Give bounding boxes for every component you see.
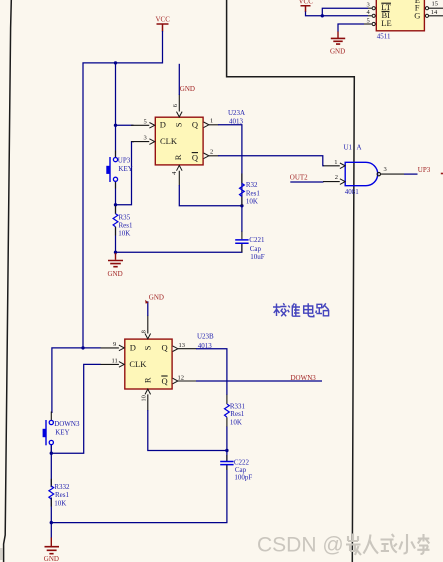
watermark fragment left edge <box>0 548 3 560</box>
svg-text:S: S <box>142 345 152 350</box>
pin 12 Qbar output <box>173 375 197 384</box>
pin 3 CLK input <box>131 135 154 145</box>
svg-text:KEY: KEY <box>55 429 69 437</box>
node junction R332/GND/rail <box>50 521 53 524</box>
wire D net (from long vertical and key) <box>52 348 101 413</box>
node junction left vertical / D wire <box>81 346 84 349</box>
svg-text:OUT2: OUT2 <box>290 173 308 181</box>
svg-text:3: 3 <box>367 2 370 9</box>
pin 10 reset (bottom) <box>140 389 150 410</box>
node junction R35/GND/rail <box>114 251 117 254</box>
svg-text:CSDN @: CSDN @ <box>257 534 344 557</box>
svg-text:4: 4 <box>367 9 371 16</box>
ground GND (bottom) <box>44 523 59 562</box>
svg-text:2: 2 <box>335 174 338 181</box>
IC U23A 4013 flip-flop body <box>155 109 245 165</box>
IC U23B 4013 flip-flop body <box>125 333 214 389</box>
svg-text:Res1: Res1 <box>230 410 245 418</box>
svg-text:3: 3 <box>144 135 147 142</box>
svg-text:GND: GND <box>180 85 195 93</box>
gate pin 1 <box>324 159 346 169</box>
pin 5 D input <box>131 118 155 128</box>
svg-text:VCC: VCC <box>156 16 171 24</box>
IC 4511 (partially cut at top) <box>376 0 424 41</box>
resistor R332 <box>49 479 70 508</box>
svg-text:Q: Q <box>162 343 168 353</box>
svg-text:10K: 10K <box>118 229 130 237</box>
svg-text:10: 10 <box>140 395 147 402</box>
watermark CSDN <box>257 534 430 557</box>
pushbutton DOWN3 KEY <box>43 412 80 454</box>
pushbutton UP3 KEY <box>106 151 132 189</box>
svg-text:UP3: UP3 <box>118 156 131 164</box>
black partition line top/right <box>227 0 355 562</box>
power GND label above pin 8 <box>145 293 164 316</box>
svg-text:DOWN3: DOWN3 <box>54 420 80 428</box>
svg-text:1: 1 <box>210 117 213 124</box>
svg-text:S: S <box>174 122 184 127</box>
4511 pin 3 LT <box>367 2 376 10</box>
wire VCC net <box>83 31 163 348</box>
svg-text:14: 14 <box>431 9 438 16</box>
AND gate U1:A 4081 <box>344 144 381 197</box>
svg-text:10uF: 10uF <box>250 253 265 261</box>
svg-text:DOWN3: DOWN3 <box>291 374 317 382</box>
node junction pin10 wire / R331 column <box>225 449 228 452</box>
svg-text:2: 2 <box>210 148 213 155</box>
4511 pin 5 LE <box>364 17 375 25</box>
svg-text:Q: Q <box>162 376 168 386</box>
node junction key bottom / CLK branch <box>50 452 53 455</box>
svg-text:Res1: Res1 <box>246 189 261 197</box>
wire key bottom to R332 and GND <box>50 445 52 523</box>
svg-text:U23B: U23B <box>197 333 214 341</box>
svg-text:R: R <box>143 377 153 383</box>
svg-text:GND: GND <box>330 48 345 56</box>
pin 4 reset (bottom) <box>171 165 182 185</box>
svg-text:R: R <box>173 154 183 160</box>
svg-text:5: 5 <box>367 17 370 24</box>
svg-text:10K: 10K <box>54 500 66 508</box>
svg-text:D: D <box>130 343 136 353</box>
capacitor C222 <box>220 455 252 482</box>
pin 8 set (top) <box>140 316 150 339</box>
svg-text:VCC: VCC <box>299 0 314 6</box>
svg-text:8: 8 <box>140 330 147 333</box>
resistor R35 <box>113 206 133 237</box>
svg-text:15: 15 <box>432 1 439 8</box>
4511 pin 14 G <box>425 9 443 18</box>
ground GND (4511) <box>330 32 345 56</box>
svg-text:9: 9 <box>113 341 116 348</box>
svg-text:Cap: Cap <box>250 245 262 253</box>
ground GND (left, under R35) <box>108 253 124 278</box>
svg-text:4511: 4511 <box>377 33 391 41</box>
pin 6 set (top) <box>172 95 182 117</box>
gate pin 2 <box>323 174 345 184</box>
svg-text:6: 6 <box>172 103 179 107</box>
svg-text:4081: 4081 <box>345 188 360 196</box>
wire key bottom to CLK branch <box>116 142 135 214</box>
wire Qbar 12 to net label DOWN3 <box>196 374 322 382</box>
svg-text:10K: 10K <box>246 198 258 206</box>
power VCC (main) <box>156 16 171 32</box>
svg-text:D: D <box>160 120 166 130</box>
4511 pin 15 F <box>425 1 443 10</box>
svg-text:GND: GND <box>149 293 164 301</box>
wire R35 bottom to GND rail <box>116 227 242 255</box>
svg-text:CLK: CLK <box>160 136 178 146</box>
svg-text:KEY: KEY <box>118 165 132 173</box>
svg-text:100pF: 100pF <box>234 474 252 482</box>
pin 11 CLK input <box>100 357 124 367</box>
node junction key/CLK <box>114 203 117 206</box>
resistor R331 <box>224 395 245 427</box>
svg-text:3: 3 <box>384 166 387 173</box>
svg-text:R331: R331 <box>230 402 246 410</box>
svg-text:A: A <box>357 144 362 152</box>
gate pin 3 output wire + net label UP3 <box>381 166 443 174</box>
svg-text:4: 4 <box>171 171 178 175</box>
label calibration circuit (Chinese 校准电路) <box>273 303 329 316</box>
pin 9 D input <box>100 341 124 351</box>
wire Qbar net to gate pin1 <box>218 156 324 166</box>
power GND label above pin 6 <box>179 64 195 95</box>
svg-text:GND: GND <box>44 555 59 562</box>
power VCC (4511 area) <box>299 0 314 12</box>
svg-text:Res1: Res1 <box>119 222 134 230</box>
net label OUT2 and wire to gate pin2 <box>290 173 324 182</box>
resistor R32 <box>239 174 260 206</box>
wire CLK net (key bottom to pin 11) <box>51 364 100 453</box>
svg-text:1: 1 <box>334 159 337 166</box>
svg-text:5: 5 <box>144 118 147 125</box>
svg-text:U23A: U23A <box>228 109 245 117</box>
svg-text:G: G <box>414 10 420 20</box>
pin 1 Q output <box>204 117 219 127</box>
svg-text:C221: C221 <box>249 236 265 244</box>
node junction R32 bottom / pin4 wire <box>240 204 243 207</box>
svg-text:GND: GND <box>108 270 123 278</box>
svg-text:Q: Q <box>192 120 198 130</box>
svg-text:10K: 10K <box>230 418 242 426</box>
svg-text:R32: R32 <box>246 181 258 189</box>
svg-text:R35: R35 <box>119 214 131 222</box>
svg-text:11: 11 <box>112 357 118 364</box>
node junction 4511 VCC branch <box>321 14 324 17</box>
wire Q13 net to R331 <box>196 349 227 395</box>
sheet border left black line <box>4 0 12 562</box>
node junction D pin branch <box>114 124 117 127</box>
node junction VCC/key column <box>114 61 117 64</box>
svg-text:LE: LE <box>381 18 391 28</box>
svg-text:Res1: Res1 <box>55 491 70 499</box>
wire bottom GND rail <box>51 465 227 523</box>
svg-text:CLK: CLK <box>129 359 147 369</box>
pin 13 Q output <box>173 342 197 351</box>
svg-text:R332: R332 <box>54 483 70 491</box>
svg-text:12: 12 <box>178 375 185 382</box>
wire R331 bottom / pin10 / C222 <box>148 410 227 461</box>
svg-text:UP3: UP3 <box>418 166 431 174</box>
wire 4511 LE to GND <box>338 24 364 32</box>
svg-text:13: 13 <box>179 342 186 349</box>
wire 4511 VCC net <box>306 8 369 16</box>
4511 pin 4 BI <box>367 9 376 17</box>
svg-text:Q: Q <box>192 153 198 163</box>
wire Q net to R32 <box>179 125 242 232</box>
capacitor C221 <box>235 232 265 262</box>
pin 2 Qbar output <box>204 148 219 158</box>
svg-text:U1: U1 <box>344 144 353 152</box>
